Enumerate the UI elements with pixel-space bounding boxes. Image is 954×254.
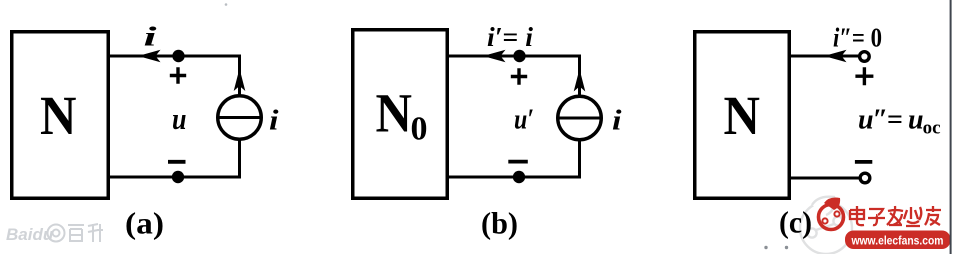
svg-text:www.elecfans.com: www.elecfans.com (851, 233, 944, 247)
svg-text:u′: u′ (514, 104, 534, 136)
svg-text:u″= uoc: u″= uoc (858, 105, 941, 139)
svg-text:(a): (a) (125, 206, 164, 241)
svg-text:i″= 0: i″= 0 (833, 23, 882, 53)
svg-text:N: N (724, 85, 761, 146)
svg-text:(b): (b) (481, 206, 518, 241)
svg-text:i: i (144, 22, 158, 52)
svg-text:u: u (172, 101, 187, 136)
svg-text:(c): (c) (779, 205, 812, 240)
svg-text:i: i (269, 105, 279, 137)
svg-text:i: i (612, 105, 622, 137)
svg-text:0: 0 (411, 111, 428, 148)
svg-text:N: N (40, 85, 77, 146)
svg-text:i′= i: i′= i (487, 22, 533, 52)
svg-text:N: N (376, 83, 413, 144)
